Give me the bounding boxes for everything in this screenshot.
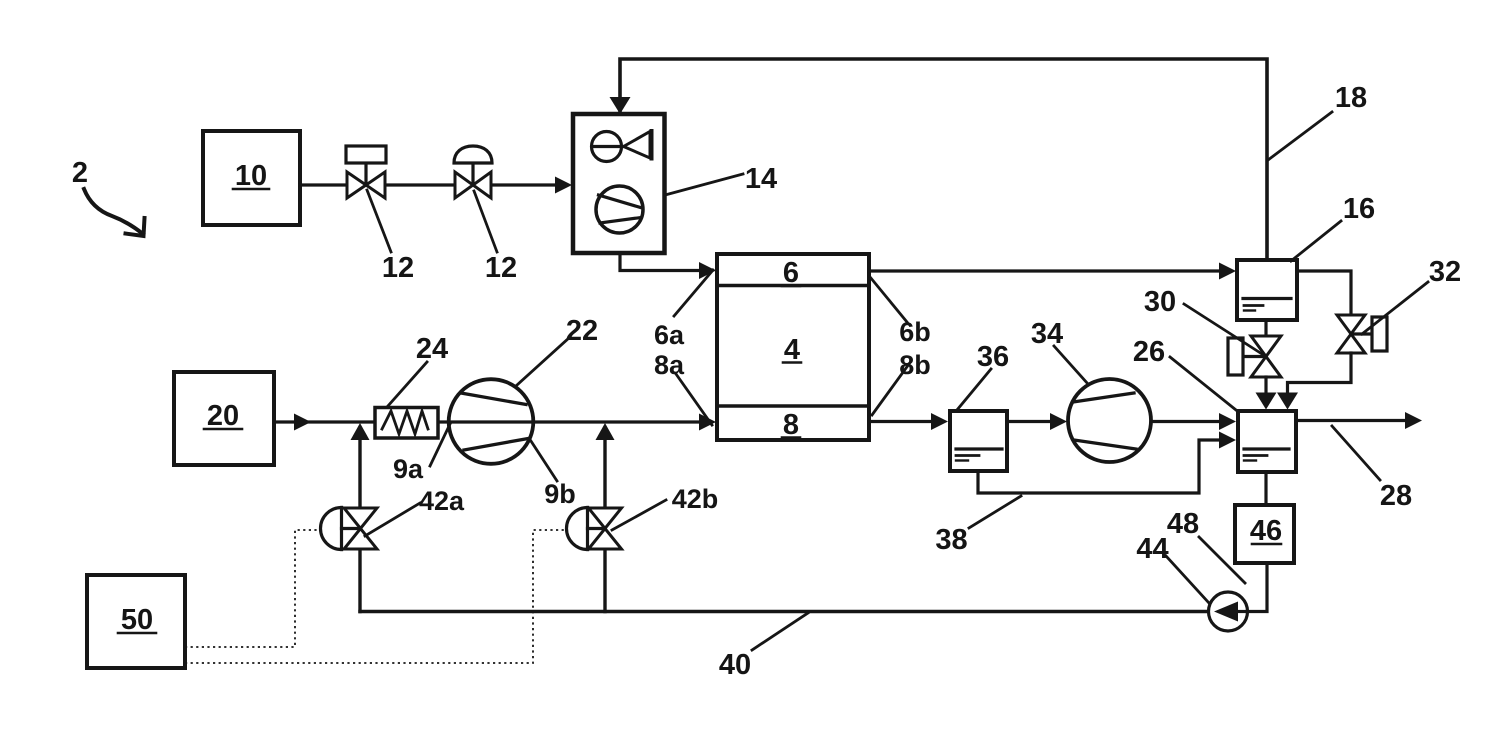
leader arrow for label 2 — [84, 189, 143, 234]
wire 14 to stack port 6a — [620, 253, 700, 271]
wire 10 to 14 — [300, 183, 557, 186]
svg-text:6: 6 — [783, 257, 799, 289]
svg-text:44: 44 — [1136, 533, 1168, 565]
svg-text:40: 40 — [719, 649, 751, 681]
separator 36 — [950, 411, 1007, 471]
arrow into 16 — [1219, 263, 1236, 280]
svg-text:16: 16 — [1343, 193, 1375, 225]
valve 42a — [321, 508, 377, 550]
label 6b — [870, 277, 907, 322]
svg-text:38: 38 — [935, 524, 967, 556]
label 26 — [1170, 357, 1236, 410]
label 12 (first valve) — [367, 190, 391, 252]
label 40 — [752, 613, 808, 650]
bypass wire through valve 42b — [603, 438, 606, 612]
arrow down into 14 — [610, 97, 631, 114]
air source 20 — [174, 372, 274, 465]
arrow down from 30 into 26 — [1256, 393, 1277, 410]
valve 30 — [1228, 336, 1281, 377]
valve 42b — [567, 508, 622, 550]
arrow into 14 — [555, 177, 572, 194]
svg-text:48: 48 — [1167, 508, 1199, 540]
valve 12 second — [454, 146, 492, 198]
svg-text:12: 12 — [382, 252, 414, 284]
junction arrow up at 42b branch — [596, 423, 615, 440]
wire valve 32 to separator 26 — [1288, 353, 1352, 393]
fan symbol in 14 — [592, 131, 652, 162]
svg-text:26: 26 — [1133, 336, 1165, 368]
svg-text:42a: 42a — [419, 486, 465, 516]
label 28 — [1332, 426, 1380, 480]
svg-text:6a: 6a — [654, 320, 685, 350]
label 8b — [872, 364, 909, 415]
svg-text:14: 14 — [745, 163, 777, 195]
label 42a — [365, 503, 420, 536]
wire valve 30 to separator 26 — [1264, 377, 1267, 393]
label 44 — [1166, 556, 1209, 603]
svg-text:28: 28 — [1380, 480, 1412, 512]
separator 26 — [1238, 411, 1296, 472]
label 6a — [674, 270, 713, 316]
label 16 — [1291, 221, 1341, 261]
arrow down from 32 into 26 — [1277, 393, 1298, 410]
wire 6b to separator 16 — [869, 269, 1220, 272]
svg-text:36: 36 — [977, 341, 1009, 373]
control line 50 to valve 42b (dotted) — [185, 530, 564, 663]
blower symbol in 14 — [596, 186, 643, 233]
wire 34 to separator 26 — [1151, 420, 1220, 423]
label 30 — [1184, 304, 1262, 354]
label 24 — [387, 362, 427, 407]
compressor 22 — [449, 379, 534, 464]
arrow recycle into 26 — [1219, 432, 1236, 449]
svg-text:46: 46 — [1250, 515, 1282, 547]
label 22 — [517, 337, 570, 385]
blower 34 — [1068, 379, 1151, 462]
pump 44 — [1209, 592, 1248, 631]
humidifier unit 14 — [573, 114, 665, 253]
label 38 — [969, 496, 1021, 528]
label 9a — [430, 424, 450, 466]
svg-text:20: 20 — [207, 400, 239, 432]
svg-text:9a: 9a — [393, 454, 424, 484]
bypass wire through valve 42a — [358, 438, 361, 612]
svg-text:18: 18 — [1335, 82, 1367, 114]
svg-text:10: 10 — [235, 160, 267, 192]
label 48 — [1199, 537, 1245, 583]
wire 8b to separator 36 — [869, 420, 932, 423]
svg-text:34: 34 — [1031, 318, 1063, 350]
label 42b — [612, 500, 666, 530]
wire 20 to stack port 8a — [274, 420, 700, 423]
label 34 — [1054, 346, 1088, 384]
junction arrow up at 42a branch — [351, 423, 370, 440]
return line 40 — [360, 610, 1209, 613]
svg-text:2: 2 — [72, 157, 88, 189]
valve 12 first — [346, 146, 386, 198]
wire 16 to valve 32 — [1297, 271, 1351, 314]
wire 16 to valve 30 — [1264, 320, 1267, 337]
separator 16 — [1237, 260, 1297, 320]
arrow into 26 — [1219, 413, 1236, 430]
label 36 — [957, 369, 991, 410]
label 18 — [1268, 112, 1332, 160]
recycle wire 18 (16 up over to 14) — [620, 59, 1267, 258]
label 32 — [1362, 282, 1428, 334]
valve 32 — [1337, 315, 1387, 353]
svg-text:50: 50 — [121, 604, 153, 636]
label 14 — [665, 174, 743, 195]
tank 10 — [203, 131, 300, 225]
wire 26 to tank 46 — [1264, 472, 1267, 505]
svg-text:30: 30 — [1144, 286, 1176, 318]
svg-text:8b: 8b — [899, 350, 931, 380]
label 8a — [676, 374, 712, 425]
stack layer line 8 — [717, 404, 869, 408]
wire 46 to pump 44 — [1248, 563, 1267, 612]
svg-text:24: 24 — [416, 333, 448, 365]
svg-text:6b: 6b — [899, 317, 931, 347]
label 12 (second valve) — [474, 191, 497, 252]
stack layer line 6 — [717, 284, 869, 288]
water tank 46 — [1235, 505, 1294, 563]
svg-text:42b: 42b — [672, 484, 719, 514]
svg-text:32: 32 — [1429, 256, 1461, 288]
outlet arrowhead — [1405, 412, 1422, 429]
arrow into stack layer 8 — [699, 414, 716, 431]
label 9b — [529, 438, 557, 481]
svg-text:12: 12 — [485, 252, 517, 284]
arrow into 36 — [931, 413, 948, 430]
controller 50 — [87, 575, 185, 668]
recycle wire 38 (36 to 26) — [978, 440, 1220, 493]
outlet wire 28 — [1296, 419, 1406, 422]
arrow into 34 — [1050, 413, 1067, 430]
fuel cell stack 4 — [717, 254, 869, 440]
svg-text:22: 22 — [566, 315, 598, 347]
arrow into stack layer 6 — [699, 262, 716, 279]
heater 24 — [375, 408, 438, 439]
arrow after 20 — [294, 414, 311, 431]
svg-text:9b: 9b — [544, 479, 576, 509]
control line 50 to valve 42a (dotted) — [185, 530, 318, 647]
wire 36 to blower 34 — [1007, 420, 1051, 423]
svg-text:8a: 8a — [654, 350, 685, 380]
